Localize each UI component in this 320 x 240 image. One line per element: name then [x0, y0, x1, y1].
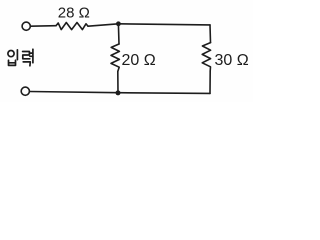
- 력 : vowel yeo vertical: [32, 49, 34, 63]
- 력 : rieul: [23, 52, 30, 59]
- wire top-left lead: [31, 25, 56, 28]
- 력 : vowel yeo ticks: [30, 53, 33, 56]
- node A junction dot (top middle): [116, 21, 121, 26]
- input terminal top (open circle): [22, 22, 30, 30]
- resistor R1 28Ω zigzag: [56, 23, 88, 30]
- input terminal bottom (open circle): [21, 87, 29, 95]
- wire resistor to node A: [88, 24, 118, 26]
- 입 : ieung ring: [8, 51, 14, 57]
- resistor R3 30Ω vertical zigzag: [202, 43, 210, 71]
- wire right branch upper lead: [209, 25, 212, 43]
- label 입력 (input) drawn strokes: [8, 49, 33, 66]
- wire node A to top-right corner: [118, 24, 210, 25]
- svg-text:28 Ω: 28 Ω: [58, 4, 90, 21]
- 입 : vowel i vertical: [16, 50, 18, 60]
- wire middle branch lower lead: [117, 71, 119, 92]
- wire middle branch upper lead: [117, 24, 120, 44]
- 입 : final bieup: [9, 60, 16, 65]
- resistor R2 20Ω vertical zigzag: [111, 44, 119, 71]
- wire right branch lower lead: [209, 71, 211, 93]
- 력 : final giyeok: [23, 62, 30, 66]
- svg-text:30 Ω: 30 Ω: [215, 52, 249, 69]
- node B junction dot (bottom middle): [116, 90, 121, 95]
- svg-text:20 Ω: 20 Ω: [122, 52, 156, 69]
- wire bottom: [30, 92, 210, 94]
